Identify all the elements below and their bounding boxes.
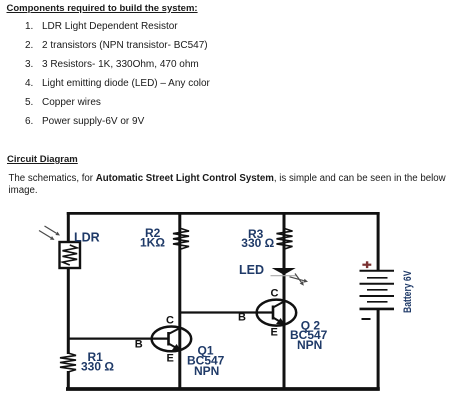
svg-text:Battery 6V: Battery 6V xyxy=(402,270,414,313)
heading: Circuit Diagram xyxy=(7,154,78,165)
paragraph xyxy=(9,173,474,197)
svg-text:NPN: NPN xyxy=(194,364,219,378)
svg-text:E: E xyxy=(167,353,174,365)
resistor R1 zigzag xyxy=(60,353,76,372)
svg-text:B: B xyxy=(135,339,143,351)
wire inner vertical 2 (R3/LED/Q2) xyxy=(283,212,286,389)
transistor Q2 xyxy=(257,300,297,326)
wire left rail upper xyxy=(67,212,70,248)
resistor R3 zigzag xyxy=(277,229,293,250)
wire top rail xyxy=(67,212,380,215)
LDR box xyxy=(60,242,81,268)
list items xyxy=(25,18,210,131)
svg-text:C: C xyxy=(271,287,279,299)
LDR zigzag xyxy=(63,245,78,265)
heading: Components required xyxy=(7,3,198,14)
LED cathode bar xyxy=(271,275,298,277)
svg-text:330 Ω: 330 Ω xyxy=(241,236,274,250)
wire left rail lower xyxy=(67,371,70,390)
transistor Q1 xyxy=(152,327,192,352)
wire inner vertical 1 (R2/Q1) xyxy=(178,212,181,389)
battery B1 plates xyxy=(360,271,395,309)
svg-text:330 Ω: 330 Ω xyxy=(81,359,114,373)
LDR light arrows xyxy=(39,226,60,240)
svg-text:E: E xyxy=(271,327,278,339)
svg-text:LED: LED xyxy=(239,263,264,277)
wire bottom rail xyxy=(66,387,380,391)
LED light arrows xyxy=(290,274,309,286)
wire base of Q1 (horizontal) xyxy=(67,338,168,340)
svg-text:C: C xyxy=(166,315,174,327)
wire right rail lower xyxy=(377,309,380,390)
wire right rail upper xyxy=(377,212,380,270)
battery - terminal xyxy=(362,318,371,320)
battery + terminal xyxy=(362,261,371,268)
svg-text:NPN: NPN xyxy=(297,338,322,352)
svg-text:B: B xyxy=(238,312,246,324)
wire left rail middle xyxy=(67,262,70,354)
wire Q1 collector node to Q2 base xyxy=(180,311,272,313)
svg-text:LDR: LDR xyxy=(74,231,100,245)
LED triangle xyxy=(272,268,296,275)
resistor R2 zigzag xyxy=(173,229,189,250)
svg-text:1KΩ: 1KΩ xyxy=(140,236,165,250)
